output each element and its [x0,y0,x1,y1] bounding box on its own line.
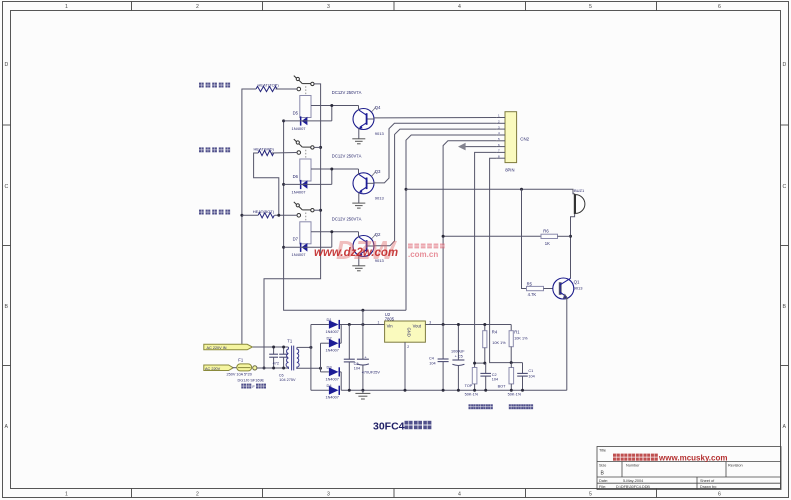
svg-text:D1: D1 [327,317,333,322]
junction secondary bottom on bridge tie [319,367,322,370]
CN2 pin 5 stub [496,140,505,142]
svg-text:B: B [5,304,9,310]
diode D2 [321,342,329,344]
junction R6 / collector [569,235,572,238]
svg-text:1: 1 [65,492,68,498]
wire U2 GND pin to rail [404,342,406,390]
resistor HEAT(BOT) heater element [258,213,274,218]
wire T1 secondary top to bridge [297,346,311,348]
wire K1 coil to Q4 collector [311,105,359,107]
svg-text:4: 4 [458,4,461,10]
svg-text:104: 104 [429,361,435,365]
svg-text:1N4007: 1N4007 [292,126,307,131]
svg-text:.com.cn: .com.cn [408,250,438,259]
svg-text:C4: C4 [429,357,434,361]
capacitor C2 104 [485,363,487,373]
svg-text:Drawn by:: Drawn by: [700,485,717,489]
svg-text:BUZ1: BUZ1 [574,188,585,193]
svg-text:DG1J0 SF169E: DG1J0 SF169E [238,379,265,383]
resistor R5 [527,286,544,290]
svg-text:30FC4: 30FC4 [373,421,405,433]
svg-text:10K 1%: 10K 1% [514,337,528,341]
svg-text:Vout: Vout [413,323,422,328]
relay K2 [294,139,314,189]
wire HEAT(BOT) row [242,214,258,216]
svg-text:1N4007: 1N4007 [326,396,339,400]
svg-text:DC12V 250V7A: DC12V 250V7A [332,154,362,159]
wire K3 diode row [284,246,332,248]
CN2 pin 1 stub [496,117,505,119]
wire Q1 emitter to ground rail [566,297,568,390]
company red text (hanzi + url) [613,453,727,462]
WATERMARK [314,235,445,265]
svg-text:C: C [783,184,787,190]
svg-text:7805: 7805 [385,317,395,322]
relay K3 [294,202,314,252]
junction S-path / HEAT(BOT) row [277,214,280,217]
svg-text:9013: 9013 [574,286,584,291]
junction heater bus on AC terminal [240,345,243,348]
relay K1 [294,76,314,126]
row divider ticks left strip [3,124,11,126]
junction CX bottom [272,367,275,370]
svg-text:1: 1 [65,4,68,10]
wire bridge tie D1-D2 cathodes [340,325,342,344]
connector J1 AC 220V IN (live) [204,344,253,350]
wire R6 row from +5V rail [443,235,541,237]
wire CN2 pin4 (ground net) down [406,135,496,310]
label BOT sensor (hanzi) [509,404,533,409]
net label heater mid (5 hanzi) [199,147,230,152]
net label heater bottom (5 hanzi) [199,210,230,215]
svg-text:3: 3 [327,4,330,10]
connector CN2 body [505,112,517,163]
wire bridge left rail [310,325,312,391]
svg-text:AC 220V IN: AC 220V IN [207,346,227,350]
resistor HEAT(MID) heater element [258,150,274,155]
wire K2 contact to bus [314,146,321,148]
svg-text:10K 1%: 10K 1% [492,341,506,345]
wire CN2 pin1 to Q4 base [374,117,496,119]
svg-text:2: 2 [196,492,199,498]
svg-text:CN2: CN2 [520,136,529,141]
svg-text:Sheet of: Sheet of [700,479,715,483]
diode D1 [311,324,329,326]
resistor R4 10K 1% [484,325,486,331]
arrow on pin6 wire [458,143,466,151]
wire AC neutral line [257,367,289,369]
junction C6 bottom [282,367,285,370]
junction coil bus K1 [282,119,285,122]
svg-text:1N4007: 1N4007 [326,349,339,353]
junction secondary top on bridge rail [309,346,312,349]
svg-text:R4: R4 [492,330,498,335]
svg-text:1K: 1K [545,241,550,246]
wire buzzer bottom to Q1 collector [571,214,575,278]
svg-text:A: A [5,424,9,430]
junction contact bus on AC neutral [263,367,266,370]
wire K2 diode row [284,183,332,185]
svg-text:250V 10A 5*20: 250V 10A 5*20 [227,373,252,377]
transistor Q1 [553,278,574,299]
svg-text:D: D [783,62,787,68]
junction +5V / pin5+C4 [442,323,445,326]
svg-text:DC12V 250V7A: DC12V 250V7A [332,216,362,221]
svg-text:F1: F1 [238,358,244,363]
svg-text:GND: GND [407,328,412,337]
svg-text:6: 6 [718,492,721,498]
CN2 pin 4 stub [496,134,505,136]
junction K3 coil node [330,230,333,233]
wire relay coil supply bus (left of coils) [284,121,406,310]
svg-text:5-May-2004: 5-May-2004 [623,479,643,483]
svg-text:6: 6 [718,4,721,10]
svg-text:Q1: Q1 [574,280,580,285]
svg-text:Size: Size [599,464,606,468]
svg-text:R6: R6 [543,228,549,233]
wire HEAT(TOP) left corner [242,89,256,215]
svg-text:4: 4 [458,492,461,498]
regulator U2 7805 [385,321,426,342]
svg-text:C: C [5,184,9,190]
CN2 pin 8 stub [496,157,505,159]
sheet title 30FC4 (bold) + hanzi [373,421,431,433]
svg-text:9013: 9013 [375,131,385,136]
junction C6 top [282,346,285,349]
wire +5V rail [425,324,511,326]
wire ground rail [341,389,567,391]
svg-text:D4: D4 [327,383,333,388]
TITLEBLOCK [597,447,781,490]
label TOP sensor (hanzi) [469,404,493,409]
svg-text:3: 3 [327,492,330,498]
row divider ticks right strip [781,124,789,126]
junction K2 coil node [330,168,333,171]
svg-text:5: 5 [589,492,592,498]
thermistor TOP 50K [472,368,477,384]
junction buzzer feed / R5 branch [520,188,523,191]
wire bridge tie D2-D3 anodes [320,343,322,372]
svg-text:T1: T1 [287,339,293,344]
diode D3 [321,371,329,373]
column divider ticks bottom strip [131,489,133,498]
svg-text:D6: D6 [293,174,299,179]
resistor R1 10K 1% [510,325,512,331]
wire CN2 pin5 (+5V) down [443,141,496,325]
svg-text:C2: C2 [492,373,497,377]
diode D4 [311,389,329,391]
svg-text:File:: File: [599,485,606,489]
svg-text:A: A [783,424,787,430]
svg-text:HEAT(TOP): HEAT(TOP) [258,83,280,88]
svg-text:HEAT(MID): HEAT(MID) [254,147,275,152]
CN2 pin 6 stub [496,146,505,148]
svg-text:Title: Title [599,449,606,453]
junction K1 coil node [330,104,333,107]
svg-text:HEAT(BOT): HEAT(BOT) [253,209,275,214]
capacitor C8 104 [348,325,350,360]
small pink hanzi row [408,244,413,249]
svg-text:D: D [5,62,9,68]
svg-text:50K-1%: 50K-1% [508,393,522,397]
capacitor C6 104/275V [283,347,285,354]
junction CX top [272,346,275,349]
svg-text:D2: D2 [327,336,333,341]
net label heater top (5 hanzi) [199,83,230,88]
junction coil-bus feed [361,309,364,312]
capacitor C3 470UF/25V electrolytic [362,310,364,359]
svg-text:D3: D3 [327,364,333,369]
column divider ticks top strip [131,2,133,11]
transistor Q4 [352,109,374,144]
wire AC live line [253,346,289,348]
svg-text:9013: 9013 [375,195,385,200]
wire bridge tie D3-D4 cathodes [340,372,342,390]
junction coil bus K3 [282,246,285,249]
wire buzzer top feed (pin4 net) [406,189,575,194]
svg-text:1N4007: 1N4007 [326,330,339,334]
junction C3 top rail crossing [361,323,364,326]
transistor Q3 [352,173,374,208]
junction pin4 net / buzzer branch [405,188,408,191]
svg-text:www.dz2w.com: www.dz2w.com [314,247,398,259]
svg-text:Revision: Revision [728,464,743,468]
connector J2 AC 220V IN (neutral) [204,365,233,371]
junction C8 top [348,323,351,326]
svg-text:104: 104 [528,375,534,379]
svg-text:1N4007: 1N4007 [292,189,307,194]
svg-text:104 275V: 104 275V [279,378,296,382]
svg-text:www.mcusky.com: www.mcusky.com [658,453,727,462]
svg-text:470UF25V: 470UF25V [362,371,381,375]
wire K1 diode row [284,120,332,122]
svg-text:B: B [783,304,787,310]
svg-text:1000UF: 1000UF [451,349,465,353]
transistor Q2 [352,236,374,271]
CN2 pin 2 stub [496,122,505,124]
svg-text:TOP: TOP [465,384,473,388]
wire TOP sensor node [475,362,486,364]
svg-text:Number: Number [626,464,640,468]
capacitor C1 104 [522,363,524,374]
svg-text:R5: R5 [527,282,533,287]
svg-text:D5: D5 [293,110,299,115]
resistor R6 [541,234,558,238]
wire K2 coil to Q3 collector [311,168,359,170]
capacitor CX 472 [273,347,275,354]
svg-text:Date:: Date: [599,479,608,483]
junction heater bus / HEAT(BOT) [240,214,243,217]
junction K2 contact on bus [319,146,322,149]
svg-text:1N4007: 1N4007 [326,377,339,381]
svg-text:4.7K: 4.7K [528,292,537,297]
ground symbol main [361,389,364,392]
svg-text:2: 2 [196,4,199,10]
svg-text:D7: D7 [293,237,299,242]
svg-text:8PIN: 8PIN [505,168,514,173]
wire K3 coil to Q2 collector [311,231,359,233]
thermistor BOT 50K [509,368,514,384]
wire heater live bus lower [241,215,243,347]
resistor HEAT(TOP) heater element [256,86,277,91]
wire CN2 pin6 off-sheet arrow [465,146,496,148]
svg-text:C1: C1 [528,369,533,373]
junction BOT sensor node [510,361,513,364]
svg-text:D:\DFB\30FC4.DDB: D:\DFB\30FC4.DDB [616,485,650,489]
junction R6 row on pin5 net [442,235,445,238]
capacitor C4 104 [442,325,444,360]
wire CN2 pin2 to Q3 base [374,123,496,183]
svg-text:1N4007: 1N4007 [292,252,307,257]
svg-text:104: 104 [354,367,360,371]
svg-text:472: 472 [273,362,279,366]
fuse note line3 (hanzi) [241,384,266,389]
wire HEAT(MID) right to relay K2 contact [272,152,297,155]
fuse F1 [233,367,237,369]
wire R5 branch down [522,189,527,288]
svg-text:2: 2 [407,345,409,349]
wire relay contact bus (NO contacts to AC) [264,84,321,368]
svg-text:50K-1%: 50K-1% [465,393,479,397]
wire +12V rail [340,324,385,326]
CN2 pin 3 stub [496,128,505,130]
svg-text:1: 1 [378,321,380,325]
svg-text:C6: C6 [279,373,284,377]
svg-text:BOT: BOT [498,384,506,388]
svg-text:+ C5: + C5 [455,354,463,358]
junction coil bus K2 [282,183,285,186]
junction K3 contact on bus [319,209,322,212]
wire HEAT(TOP) right to relay K1 contact [276,88,298,90]
capacitor C5 1000UF electrolytic [457,325,459,361]
wire CN2 pin8 to BOT sensor node [490,158,523,362]
terminal circle after fuse [253,366,257,370]
svg-text:5: 5 [589,4,592,10]
svg-text:DC12V 250V7A: DC12V 250V7A [332,90,362,95]
wire K3 contact to bus [314,209,321,211]
wire HEAT(MID) left S-path down [254,153,279,215]
wire CN2 pin7 to TOP sensor node [475,152,497,367]
wire T1 secondary bottom to bridge [297,367,321,369]
svg-text:Vin: Vin [387,323,394,328]
CN2 pin 7 stub [496,151,505,153]
buzzer BUZ1 [574,194,576,214]
svg-text:104: 104 [492,378,498,382]
svg-text:AC 220V: AC 220V [205,367,221,371]
wire CN2 pin3 to Q2 base [374,129,496,246]
svg-text:R1: R1 [514,330,520,335]
